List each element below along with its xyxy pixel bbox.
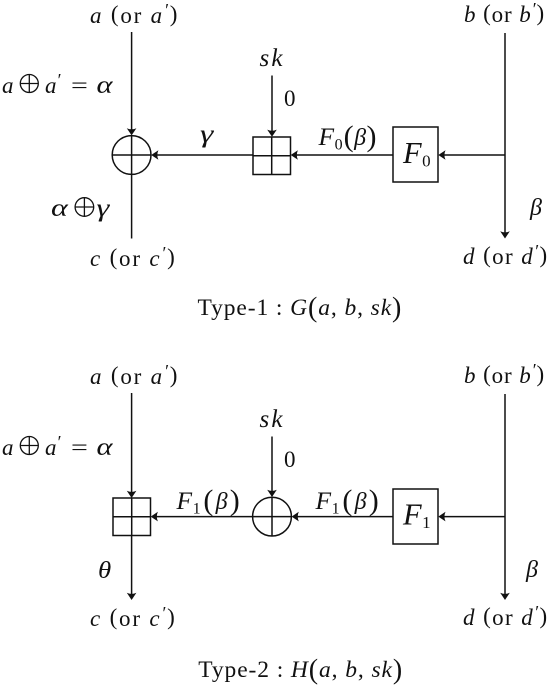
- svg-text:a: a: [2, 73, 14, 98]
- arrowhead b down to d: [500, 231, 510, 238]
- svg-text:a: a: [2, 435, 14, 460]
- oplus glyph in label 1: [20, 75, 38, 93]
- svg-text:F1(β): F1(β): [176, 484, 240, 517]
- svg-text:sk: sk: [260, 406, 285, 433]
- wire X2 to B2: [153, 516, 253, 518]
- arrowhead F1(beta) into X2: [292, 512, 299, 522]
- boxplus B1 square: [253, 137, 291, 175]
- oplus glyph in label 3: [20, 437, 38, 455]
- block F1 box: [393, 489, 438, 544]
- wire b input (right vertical): [504, 33, 506, 237]
- block F0 box: [393, 127, 438, 182]
- wire a input (bottom diagram): [131, 393, 133, 496]
- boxplus B2 square: [113, 498, 151, 536]
- svg-text:α: α: [51, 194, 69, 222]
- arrowhead F1(beta) into B2: [151, 512, 158, 522]
- arrowhead b into F1: [438, 512, 445, 522]
- xor X1 cross: [112, 154, 151, 156]
- svg-text:F0(β): F0(β): [318, 120, 377, 153]
- arrowhead theta down to c: [127, 593, 137, 600]
- arrowhead sk into X2: [267, 490, 277, 497]
- svg-text:F1(β): F1(β): [315, 484, 379, 517]
- svg-text:θ: θ: [98, 556, 111, 583]
- arrowhead b down to d (bottom): [500, 593, 510, 600]
- svg-text:β: β: [525, 557, 538, 583]
- svg-text:sk: sk: [260, 45, 285, 72]
- oplus glyph in label 2: [75, 198, 94, 217]
- arrowhead F0(beta) into B1: [291, 150, 298, 160]
- wire b to F0: [440, 154, 505, 156]
- svg-text:=: =: [71, 434, 88, 460]
- arrowhead b into F0: [438, 150, 445, 160]
- xor X2 circle: [253, 497, 292, 536]
- arrowhead a into B2: [127, 491, 137, 498]
- xor X2 cross: [253, 516, 292, 518]
- svg-text:α: α: [97, 71, 114, 99]
- wire B1 to X1 (gamma): [153, 154, 253, 156]
- boxplus B2 cross: [113, 516, 151, 518]
- svg-text:0: 0: [284, 447, 296, 472]
- xor X1 circle: [112, 136, 151, 175]
- wire F0 to B1: [293, 154, 394, 156]
- svg-text:α: α: [97, 433, 114, 461]
- svg-text:Type-1 : G(a, b, sk): Type-1 : G(a, b, sk): [198, 293, 403, 324]
- wire a input (top vertical): [131, 32, 133, 133]
- svg-text:=: =: [71, 72, 88, 98]
- svg-text:γ: γ: [97, 194, 112, 222]
- wire sk input: [271, 76, 273, 135]
- svg-text:Type-2 : H(a, b, sk): Type-2 : H(a, b, sk): [198, 655, 403, 686]
- wire b to F1: [440, 516, 505, 518]
- arrowhead sk into B1: [267, 130, 277, 137]
- svg-text:γ: γ: [200, 121, 215, 148]
- wire F1 to X2: [294, 516, 394, 518]
- wire b input (bottom right vertical): [504, 394, 506, 598]
- arrowhead gamma into X1: [151, 150, 158, 160]
- wire theta output to c: [131, 536, 133, 599]
- svg-text:0: 0: [284, 86, 296, 111]
- wire a output to c: [131, 174, 133, 238]
- boxplus B1 cross: [253, 155, 291, 157]
- wire sk input (bottom): [271, 437, 273, 497]
- svg-text:β: β: [529, 195, 542, 221]
- arrowhead a into X1: [127, 128, 137, 135]
